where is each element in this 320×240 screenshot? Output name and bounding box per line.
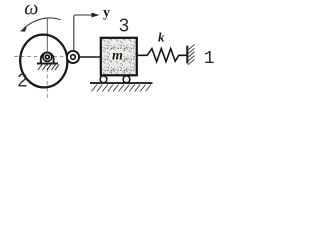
mass block 3 <box>101 38 137 76</box>
wall hatching <box>188 45 195 65</box>
y axis with arrow <box>74 13 100 51</box>
svg-text:y: y <box>103 6 110 21</box>
label 3 <box>119 16 129 36</box>
rotation arrow arc <box>20 18 61 32</box>
roller follower pin <box>67 51 79 63</box>
vertical centerline <box>46 18 48 99</box>
svg-text:2: 2 <box>18 71 28 91</box>
roller wheel left under block <box>100 76 107 83</box>
svg-text:k: k <box>158 30 165 45</box>
connecting rod <box>79 56 101 58</box>
label omega (angular velocity) <box>24 0 38 20</box>
horizontal centerline <box>14 56 66 58</box>
label k <box>158 30 165 45</box>
roller wheel right under block <box>123 76 130 83</box>
svg-text:1: 1 <box>204 49 215 69</box>
spring k <box>137 49 187 62</box>
ground line <box>90 82 153 84</box>
svg-text:m: m <box>112 49 123 64</box>
label m <box>112 49 123 64</box>
label 1 <box>204 49 215 69</box>
svg-text:3: 3 <box>119 16 129 36</box>
pivot ground hatching <box>38 65 59 71</box>
wall anchor <box>186 46 188 64</box>
label y <box>103 6 110 21</box>
disc 2 (eccentric cam ellipse) <box>18 33 69 89</box>
svg-text:ω: ω <box>24 0 38 20</box>
pivot support bracket <box>37 53 58 64</box>
pin O (pivot hinge) <box>43 53 52 62</box>
ground hatching <box>92 85 152 92</box>
label 2 <box>18 71 28 91</box>
